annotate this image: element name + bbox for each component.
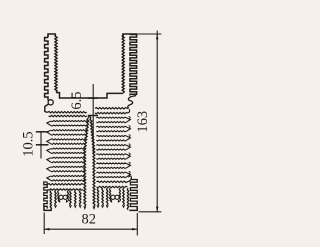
left fins	[47, 121, 89, 182]
base left corner	[44, 207, 52, 211]
deck underside left	[48, 112, 88, 117]
svg-text:82: 82	[82, 212, 97, 228]
svg-text:10.5: 10.5	[21, 131, 37, 156]
right deck fin	[95, 108, 130, 114]
central spine walls	[84, 117, 95, 209]
deck top	[56, 93, 123, 98]
right boss pocket	[110, 188, 121, 202]
base teeth right	[97, 188, 129, 210]
svg-text:163: 163	[135, 111, 151, 133]
right fins	[96, 117, 130, 178]
dimension 10.5	[21, 131, 49, 159]
base teeth left	[50, 191, 81, 210]
base right wall	[130, 180, 137, 209]
left tall fin	[45, 34, 58, 99]
dimension 6.5	[69, 84, 98, 153]
base web	[48, 176, 132, 190]
right tall fin	[122, 34, 137, 108]
base left wall	[44, 182, 47, 209]
base right corner	[129, 207, 137, 211]
left boss pocket	[58, 191, 69, 203]
svg-text:6.5: 6.5	[69, 91, 85, 109]
left fin bottom boss	[45, 99, 54, 113]
dimension 163	[135, 31, 161, 212]
dimension 82	[44, 212, 137, 236]
